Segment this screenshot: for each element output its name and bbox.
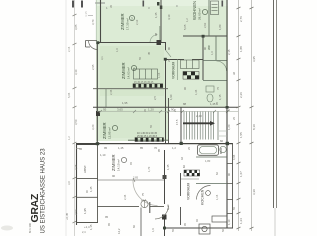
svg-text:1,10: 1,10 <box>227 219 231 225</box>
svg-text:2,85: 2,85 <box>133 176 139 180</box>
kitchen checkerboard <box>184 170 200 176</box>
kitchen wall y183 <box>196 183 227 185</box>
svg-text:ZIMMER: ZIMMER <box>120 13 125 30</box>
wc wall y60 <box>203 60 227 62</box>
bottom-centre divider wall y178 <box>76 178 98 180</box>
svg-text:1,80: 1,80 <box>218 24 222 30</box>
svg-text:5,05: 5,05 <box>183 24 187 30</box>
right wall second line lower <box>232 143 234 228</box>
balcony door niche <box>86 41 98 48</box>
svg-text:KOCHEN: KOCHEN <box>201 189 205 205</box>
svg-text:25: 25 <box>167 59 171 62</box>
top room divider wall y42 <box>97 42 165 44</box>
green uneven patch 1 <box>100 46 164 96</box>
svg-text:1,0: 1,0 <box>210 51 214 55</box>
door hinge blob left <box>96 111 100 116</box>
svg-text:ZIMMER: ZIMMER <box>121 62 126 79</box>
svg-text:WOHNEN: WOHNEN <box>192 1 197 20</box>
svg-text:3,30: 3,30 <box>252 189 256 195</box>
svg-text:85: 85 <box>140 146 144 150</box>
svg-text:1,2: 1,2 <box>185 18 189 22</box>
bath sink <box>220 146 226 152</box>
svg-text:80: 80 <box>167 46 171 50</box>
green-bottom light line y140 <box>128 139 168 141</box>
svg-text:1,15: 1,15 <box>157 72 161 78</box>
outer wall left upper <box>97 0 100 144</box>
svg-text:2,15: 2,15 <box>67 46 71 52</box>
svg-text:1,45: 1,45 <box>118 146 124 150</box>
bathtub <box>198 145 219 156</box>
svg-text:+1,4: +1,4 <box>84 225 90 229</box>
stair right edge <box>217 112 219 141</box>
svg-text:1,88: 1,88 <box>239 46 243 52</box>
wall x203 <box>202 36 204 80</box>
svg-text:US EISTEICHGASSE HAUS 23: US EISTEICHGASSE HAUS 23 <box>41 148 47 234</box>
svg-text:+1,7: +1,7 <box>141 198 147 202</box>
svg-text:75: 75 <box>141 192 145 196</box>
main wall y143 <box>76 143 233 145</box>
svg-text:35: 35 <box>143 109 147 112</box>
svg-text:75: 75 <box>216 87 220 90</box>
svg-text:1,9: 1,9 <box>151 228 155 232</box>
svg-text:ZIMMER: ZIMMER <box>102 122 107 139</box>
svg-text:1,2: 1,2 <box>67 136 71 140</box>
green highlighted zone left block <box>96 0 168 141</box>
svg-text:5,05: 5,05 <box>67 92 71 98</box>
door arc bottom centre <box>155 206 169 220</box>
junction accents <box>96 35 229 230</box>
svg-text:BAD: BAD <box>219 147 223 154</box>
svg-text:1,35: 1,35 <box>194 89 198 95</box>
svg-text:1,2: 1,2 <box>172 146 176 150</box>
room label ZIMMER 1 <box>120 13 130 30</box>
svg-text:2,26: 2,26 <box>239 92 243 98</box>
closet divider x106 <box>105 89 107 107</box>
svg-text:2,45: 2,45 <box>109 89 113 95</box>
interior dim chain y111.5 <box>97 111 238 113</box>
svg-text:1,70: 1,70 <box>147 166 151 172</box>
svg-text:3,85: 3,85 <box>74 24 78 30</box>
right wall tick y183 <box>227 183 233 185</box>
svg-text:GRAZ: GRAZ <box>29 193 41 222</box>
extra left margin numbers <box>67 46 71 185</box>
wall x168 lower <box>168 98 170 143</box>
landing faint lines <box>219 130 227 132</box>
svg-text:VORRAUM: VORRAUM <box>187 182 191 200</box>
svg-text:25: 25 <box>173 108 177 112</box>
svg-text:M 1:100: M 1:100 <box>28 222 32 233</box>
circled number room1 <box>129 15 134 20</box>
step wall y144 <box>76 144 98 146</box>
top tick mark 2 <box>81 1 83 8</box>
svg-text:+0,45: +0,45 <box>65 212 69 220</box>
room label ZIMMER 2 <box>121 62 131 79</box>
wc bowl <box>207 94 213 102</box>
svg-text:45 45 45 45 45 45: 45 45 45 45 45 45 <box>134 81 154 84</box>
door arc room1 <box>150 35 158 43</box>
svg-text:62: 62 <box>180 156 184 160</box>
svg-text:2,62: 2,62 <box>203 22 207 28</box>
room label ZIMMER 4 white zone <box>111 154 121 171</box>
svg-text:55: 55 <box>232 207 236 210</box>
checkered band room2 <box>133 84 163 88</box>
svg-text:14,2: 14,2 <box>117 228 121 234</box>
svg-text:95: 95 <box>215 101 219 105</box>
svg-text:95: 95 <box>105 215 109 219</box>
legend box top right <box>211 1 219 15</box>
svg-text:90: 90 <box>227 172 231 176</box>
svg-text:55: 55 <box>171 229 175 232</box>
svg-text:45: 45 <box>147 51 151 55</box>
svg-text:2,40: 2,40 <box>196 114 202 118</box>
svg-text:25: 25 <box>232 117 236 120</box>
svg-text:1,67: 1,67 <box>239 171 243 177</box>
svg-text:95: 95 <box>183 223 187 226</box>
svg-text:1,20: 1,20 <box>148 108 154 112</box>
svg-text:1,95: 1,95 <box>83 208 87 214</box>
svg-text:3,65: 3,65 <box>117 108 123 112</box>
svg-text:50: 50 <box>221 229 225 232</box>
lower room wall y207 <box>97 206 164 208</box>
svg-text:3,35: 3,35 <box>74 164 78 170</box>
svg-text:4,35: 4,35 <box>84 11 88 17</box>
top tick mark 1 <box>72 1 74 8</box>
column circle symbol <box>141 200 148 207</box>
dimension line right col 1 <box>238 0 240 231</box>
svg-text:90: 90 <box>112 174 116 178</box>
stair left wall x181 <box>180 107 182 143</box>
big door arc <box>133 181 158 206</box>
hinge blob <box>162 215 167 220</box>
svg-text:14,63 m²: 14,63 m² <box>127 67 131 79</box>
stair treads <box>184 112 214 140</box>
svg-text:8,10: 8,10 <box>252 124 256 130</box>
dimension line right col 2 <box>251 0 253 231</box>
kitchen door arc <box>197 186 211 200</box>
svg-text:55: 55 <box>149 125 153 128</box>
wall top-right y36 <box>183 35 227 37</box>
svg-text:60: 60 <box>132 225 136 228</box>
svg-text:85: 85 <box>107 223 111 226</box>
door leaf corridor <box>166 50 172 57</box>
hall cabinet cells <box>181 60 200 69</box>
svg-text:17,30 m²: 17,30 m² <box>126 18 130 30</box>
svg-text:1,80: 1,80 <box>205 159 211 163</box>
svg-text:95: 95 <box>104 146 108 150</box>
svg-text:1,90: 1,90 <box>169 94 173 100</box>
thin line y88.7 <box>93 88 168 90</box>
room label ZIMMER 3 <box>102 122 112 139</box>
lower-left room lines y197 <box>76 196 98 198</box>
left dim ticks <box>73 14 77 223</box>
cabinet cells room2 <box>134 69 158 79</box>
svg-text:2,10: 2,10 <box>166 204 170 210</box>
room label WOHNEN <box>192 1 202 20</box>
scattered dims left col <box>74 19 95 215</box>
svg-text:1,15: 1,15 <box>215 194 219 200</box>
green highlighted zone right block <box>168 0 228 108</box>
right outer wall x227 <box>226 0 228 228</box>
svg-text:12,95 m²: 12,95 m² <box>108 127 112 139</box>
scattered noise texts <box>100 5 236 232</box>
main wall y107 <box>93 106 238 108</box>
left edge smudge <box>1 226 13 231</box>
wc partition x216 <box>215 36 217 60</box>
svg-text:2,10: 2,10 <box>135 19 139 25</box>
centre-bottom wall x164 <box>164 150 166 236</box>
svg-text:90: 90 <box>183 87 187 90</box>
svg-text:3,30: 3,30 <box>74 69 78 75</box>
svg-text:60: 60 <box>220 139 224 143</box>
svg-text:3,95: 3,95 <box>252 56 256 62</box>
svg-text:2,35: 2,35 <box>123 194 127 200</box>
stair stringer dark <box>183 122 213 124</box>
svg-text:3,20: 3,20 <box>91 124 95 130</box>
wash basin <box>206 86 214 92</box>
svg-text:2,5: 2,5 <box>153 96 157 100</box>
stair arrow head <box>210 121 215 126</box>
svg-text:3,50: 3,50 <box>74 119 78 125</box>
svg-text:1,55: 1,55 <box>239 132 243 138</box>
bathroom top wall y157 <box>196 156 227 158</box>
svg-text:1,35: 1,35 <box>166 164 170 170</box>
checkered band room3 bottom <box>135 138 164 142</box>
svg-text:2,76: 2,76 <box>239 16 243 22</box>
wall between left rooms x161 top <box>160 0 162 42</box>
outer wall left lower <box>76 144 78 225</box>
svg-text:2,50: 2,50 <box>74 209 78 215</box>
svg-text:28,60 m²: 28,60 m² <box>198 8 202 20</box>
wall x165 mid with door gap <box>165 42 167 143</box>
green uneven patch 3 <box>100 110 160 138</box>
svg-text:45: 45 <box>129 162 133 165</box>
svg-text:ZIMMER: ZIMMER <box>111 154 116 171</box>
sheet fold double line <box>273 0 275 208</box>
hall checkerboard <box>183 72 199 80</box>
wall x180 bottom <box>180 173 182 225</box>
svg-text:90: 90 <box>203 46 207 50</box>
svg-text:1,0: 1,0 <box>115 48 119 52</box>
right wall tick y163 <box>227 163 233 165</box>
svg-text:17.5: 17.5 <box>175 119 179 125</box>
svg-text:1,15: 1,15 <box>89 224 93 230</box>
svg-text:14,10 m²: 14,10 m² <box>117 159 121 171</box>
green pale edge top <box>97 0 228 6</box>
top plus cross at wall <box>95 2 105 4</box>
svg-text:45: 45 <box>79 147 83 151</box>
dim numbers col1 <box>239 16 243 224</box>
svg-text:1,24: 1,24 <box>239 218 243 224</box>
thin interior line y180 <box>98 179 164 181</box>
svg-text:WC: WC <box>207 44 211 50</box>
svg-text:3,8: 3,8 <box>67 181 71 185</box>
svg-text:35: 35 <box>109 5 113 8</box>
entry door arc left <box>89 41 98 50</box>
scattered dims interior <box>65 12 231 234</box>
faint dimension line far left <box>65 0 67 236</box>
inner wall line left top <box>95 0 97 42</box>
kitchen counter line <box>181 178 199 180</box>
hall corridor double line <box>177 59 179 80</box>
dim ticks col 1 <box>237 7 241 229</box>
svg-text:4,95: 4,95 <box>232 154 236 160</box>
svg-text:3,1: 3,1 <box>100 56 104 60</box>
svg-text:2,4: 2,4 <box>82 230 86 234</box>
svg-text:1,10: 1,10 <box>100 153 106 157</box>
dimension line left column <box>74 0 76 236</box>
wc wall y80 <box>203 80 227 82</box>
right wall tick y199 <box>227 199 233 201</box>
bottom wall right part y228 <box>164 227 233 229</box>
green uneven patch 2 <box>170 10 220 50</box>
vertical x209 top <box>208 0 210 36</box>
svg-text:40: 40 <box>195 219 199 222</box>
bottom left wall y222 <box>76 222 98 224</box>
top junction blobs <box>157 2 160 6</box>
svg-text:VORRAUM: VORRAUM <box>172 61 176 79</box>
svg-text:88: 88 <box>154 32 158 36</box>
svg-text:1,45: 1,45 <box>89 186 93 192</box>
svg-text:1,20: 1,20 <box>227 124 231 130</box>
svg-text:62: 62 <box>215 172 219 175</box>
svg-text:25: 25 <box>187 147 191 150</box>
svg-text:55: 55 <box>138 57 142 60</box>
corridor top wall y59 <box>165 59 203 61</box>
vert x141 bottom <box>140 208 142 237</box>
svg-text:95: 95 <box>157 148 161 152</box>
svg-text:1,15: 1,15 <box>218 94 222 100</box>
svg-text:ABST.: ABST. <box>83 164 87 173</box>
right wall tick y213 <box>227 213 233 215</box>
svg-text:4,10: 4,10 <box>167 14 171 20</box>
svg-text:2,95: 2,95 <box>91 64 95 70</box>
dim ticks col 2 <box>250 7 254 229</box>
svg-text:38: 38 <box>232 72 236 75</box>
lower inner wall x97 <box>97 144 99 223</box>
svg-text:1,95: 1,95 <box>122 101 128 105</box>
door jamb mark <box>149 202 151 213</box>
svg-text:2,15: 2,15 <box>227 49 231 55</box>
svg-text:88: 88 <box>183 102 187 106</box>
svg-text:1,35: 1,35 <box>154 12 158 18</box>
svg-text:3,70: 3,70 <box>91 19 95 25</box>
wc door arc <box>217 61 227 71</box>
kitchen counter bottom <box>199 216 227 234</box>
svg-text:95: 95 <box>103 108 107 112</box>
